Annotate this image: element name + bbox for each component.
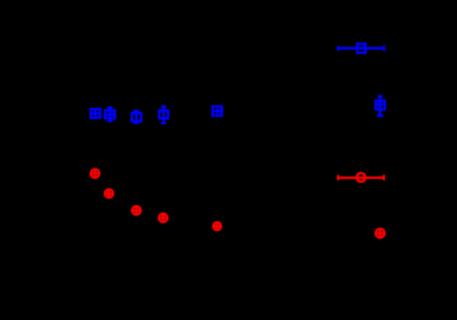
point B2 [105, 108, 115, 121]
point B6 [375, 96, 386, 115]
point B7 (large x error bar) [338, 44, 384, 53]
point R6 [376, 229, 385, 238]
point R4 [159, 214, 167, 222]
point B4 [159, 107, 168, 124]
point R3 [132, 206, 140, 214]
point R7 (large x error bar) [338, 173, 384, 182]
point R1 [91, 169, 99, 177]
point B3 [132, 111, 141, 123]
red dataset: open circles with error bars [91, 169, 385, 237]
point B1 [91, 109, 101, 118]
blue dataset: open squares with error bars [91, 44, 386, 123]
point R5 [213, 222, 221, 230]
point R2 [105, 189, 113, 197]
point B5 [212, 107, 223, 116]
